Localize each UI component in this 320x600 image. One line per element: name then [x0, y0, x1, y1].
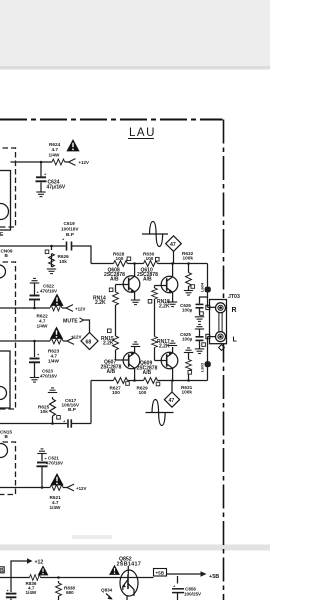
svg-text:680: 680 — [66, 590, 74, 595]
svg-text:2.2K: 2.2K — [103, 341, 114, 347]
svg-text:B: B — [0, 568, 4, 574]
svg-text:4.7: 4.7 — [52, 147, 59, 152]
svg-text:A/B: A/B — [143, 277, 152, 283]
svg-text:1/4W: 1/4W — [26, 590, 37, 595]
svg-text:470/16V: 470/16V — [46, 461, 64, 466]
svg-text:1/4W: 1/4W — [50, 505, 62, 510]
svg-text:+12V: +12V — [71, 335, 81, 340]
svg-text:47: 47 — [169, 398, 175, 404]
svg-text:470/16V: 470/16V — [40, 289, 58, 294]
svg-text:B.P: B.P — [66, 232, 74, 237]
svg-text:100k: 100k — [182, 390, 193, 395]
svg-text:100k: 100k — [183, 256, 194, 261]
svg-text:68: 68 — [86, 340, 92, 346]
svg-text:L: L — [233, 337, 238, 344]
svg-text:R: R — [232, 307, 237, 314]
svg-text:1/4W: 1/4W — [37, 324, 49, 329]
svg-text:10k: 10k — [59, 259, 67, 264]
svg-text:470/16V: 470/16V — [40, 374, 58, 379]
svg-text:C619: C619 — [64, 221, 76, 226]
svg-text:+5B: +5B — [156, 571, 165, 576]
svg-text:A/B: A/B — [110, 277, 119, 283]
svg-text:A/B: A/B — [143, 370, 152, 376]
svg-text:LAU: LAU — [129, 127, 156, 139]
svg-text:2.2K: 2.2K — [159, 344, 170, 350]
svg-text:47µ/16V: 47µ/16V — [47, 185, 66, 191]
svg-text:+5B: +5B — [209, 574, 219, 580]
svg-text:100/16V: 100/16V — [61, 227, 79, 232]
svg-text:100: 100 — [139, 390, 147, 395]
svg-text:100: 100 — [112, 390, 120, 395]
svg-text:47: 47 — [170, 242, 176, 248]
svg-text:JT03: JT03 — [228, 294, 240, 300]
svg-text:10k: 10k — [40, 409, 48, 414]
svg-text:+12V: +12V — [76, 486, 86, 491]
svg-text:1/4W: 1/4W — [49, 153, 61, 158]
svg-text:L604: L604 — [200, 282, 205, 292]
svg-text:Q834: Q834 — [101, 588, 113, 593]
svg-text:2.2K: 2.2K — [159, 304, 170, 310]
svg-text:B.P: B.P — [68, 407, 76, 412]
svg-text:100/25V: 100/25V — [184, 592, 202, 597]
svg-text:+12: +12 — [35, 560, 44, 566]
svg-text:100: 100 — [146, 256, 154, 261]
svg-text:L603: L603 — [200, 362, 205, 372]
svg-text:2.2K: 2.2K — [95, 300, 106, 306]
svg-text:+12V: +12V — [75, 307, 85, 312]
svg-text:100: 100 — [116, 256, 124, 261]
svg-text:MUTE: MUTE — [63, 319, 78, 325]
svg-text:A/B: A/B — [107, 369, 116, 375]
svg-text:100µ: 100µ — [182, 308, 193, 313]
svg-text:100µ: 100µ — [182, 337, 193, 342]
svg-text:1/4W: 1/4W — [48, 359, 60, 364]
svg-text:+12V: +12V — [79, 160, 89, 165]
